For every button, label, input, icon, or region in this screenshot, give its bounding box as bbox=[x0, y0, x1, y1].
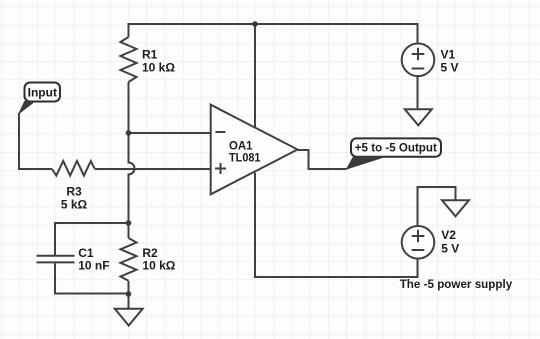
svg-text:The -5 power supply: The -5 power supply bbox=[400, 277, 513, 291]
resistor R1 bbox=[121, 37, 176, 82]
wire top rail from R1 top to V1 top bbox=[129, 24, 418, 44]
wire R2 leads bbox=[128, 223, 130, 294]
voltage source V1 bbox=[402, 44, 459, 77]
svg-text:TL081: TL081 bbox=[229, 151, 261, 165]
op-amp OA1 TL081 bbox=[211, 105, 298, 195]
junction node C1/R2 bottom bbox=[126, 291, 132, 297]
wire op-amp V+ supply from top rail junction bbox=[254, 24, 256, 127]
svg-text:R1: R1 bbox=[142, 48, 158, 62]
wire inverting input from node to op-amp bbox=[129, 132, 211, 134]
svg-text:5 V: 5 V bbox=[441, 60, 459, 74]
junction node inverting input bbox=[126, 130, 132, 136]
svg-text:5 kΩ: 5 kΩ bbox=[61, 197, 88, 211]
Output flag +5 to -5 Output bbox=[347, 138, 441, 169]
svg-text:V2: V2 bbox=[441, 228, 456, 242]
wire op-amp output to output flag bbox=[298, 150, 347, 169]
svg-text:Input: Input bbox=[28, 86, 57, 100]
wire V1 bottom to ground bbox=[417, 76, 419, 109]
wire R1 bottom down left vertical with hop over +input wire bbox=[129, 82, 135, 223]
wire R3 to op-amp non-inverting input bbox=[95, 168, 211, 170]
svg-text:+5 to -5 Output: +5 to -5 Output bbox=[355, 141, 437, 155]
resistor R3 bbox=[52, 161, 95, 211]
wire C1 branch top bbox=[55, 223, 129, 255]
wire input flag down to R3 bbox=[19, 113, 52, 169]
junction node C1/R2 top bbox=[126, 220, 132, 226]
Input flag bbox=[19, 83, 60, 114]
svg-text:10 kΩ: 10 kΩ bbox=[142, 61, 175, 75]
svg-text:R3: R3 bbox=[66, 185, 82, 199]
junction node top rail bbox=[252, 21, 258, 27]
wire op-amp V- supply to bottom rail and V2 bbox=[255, 173, 418, 277]
wire C1 branch bottom bbox=[55, 263, 129, 293]
svg-text:10 kΩ: 10 kΩ bbox=[142, 259, 175, 273]
wire node to ground under R2 bbox=[128, 294, 130, 309]
resistor R2 bbox=[121, 238, 176, 281]
ground above V2 bbox=[442, 200, 469, 216]
svg-text:10 nF: 10 nF bbox=[78, 259, 109, 273]
voltage source V2 bbox=[402, 226, 460, 259]
capacitor C1 bbox=[37, 246, 110, 273]
ground under R2 bbox=[115, 309, 143, 326]
svg-text:5 V: 5 V bbox=[441, 241, 459, 255]
ground under V1 bbox=[405, 109, 432, 125]
wire V2 top to ground symbol bbox=[418, 187, 456, 226]
caption The -5 power supply bbox=[400, 277, 513, 291]
